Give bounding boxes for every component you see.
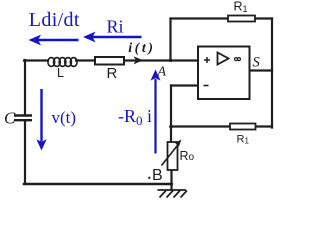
svg-text:S: S [253,55,261,71]
svg-text:v(t): v(t) [52,108,77,127]
svg-text:R: R [107,65,118,82]
svg-text:C: C [4,109,16,128]
svg-text:-R0 i: -R0 i [118,106,152,128]
svg-text:i(t): i(t) [128,41,155,56]
svg-text:Ldi/dt: Ldi/dt [29,9,80,31]
svg-text:A: A [157,65,167,80]
svg-text:B: B [152,167,163,184]
svg-text:Ro: Ro [180,149,195,163]
svg-text:L: L [57,66,64,80]
svg-text:Ri: Ri [107,16,124,36]
